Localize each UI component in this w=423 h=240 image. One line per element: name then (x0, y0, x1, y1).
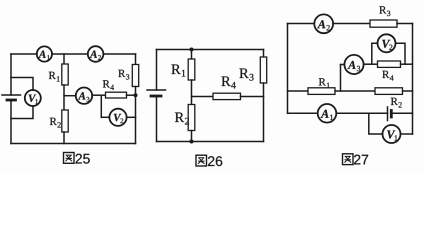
voltmeter V2 c3 (378, 34, 396, 52)
resistor R1 c1 (62, 64, 68, 85)
ammeter A1 c3 (318, 104, 337, 123)
caption hanzi TU 25 (64, 153, 75, 164)
wire: c1 left frame lower (10, 100, 12, 144)
wire: branch to R1 c2 (191, 50, 193, 60)
wire: c1 top rail mid (52, 53, 87, 55)
caption hanzi TU 27 (343, 154, 354, 165)
wire: R4 to right frame c2 (241, 96, 264, 98)
label A1 meter c3 (320, 110, 328, 118)
wire: A3 to R4 (92, 94, 105, 96)
label R3 c3 (379, 6, 386, 13)
resistor R3 c2 (260, 57, 266, 83)
caption 26 (208, 156, 222, 166)
ammeter A3 (76, 88, 92, 104)
node junction c2 bottom (190, 140, 194, 144)
label R3 c2 (239, 69, 248, 78)
battery cell c3 short plate (390, 111, 393, 118)
resistor R1 c2 (188, 59, 195, 80)
ammeter A2 c3 (314, 14, 333, 33)
wire: branch to A3 (64, 95, 76, 97)
label A2 meter c3 (317, 20, 325, 28)
wire: c1 bottom rail (11, 143, 136, 145)
wire: V1 bracket top (11, 78, 33, 91)
wire: V2 to right frame (127, 116, 136, 118)
wire: c2 right frame upper (263, 50, 265, 58)
wire: c2 top rail (157, 49, 264, 51)
wire: A3 branch riser c3 (340, 65, 342, 92)
resistor R4 c3 (378, 61, 401, 67)
wire: R2 to right frame c3 (403, 90, 413, 92)
wire: to V2 left (101, 116, 109, 118)
wire: V2 right bracket c3 (396, 43, 406, 64)
voltmeter V2 (109, 109, 126, 126)
wire: A1 to battery c3 (336, 112, 387, 114)
voltmeter V1 c3 (383, 125, 401, 143)
label V2 meter c3 (382, 40, 390, 48)
resistor R4 c1 (106, 92, 127, 98)
wire: V1 left bracket c3 (369, 113, 383, 134)
wire: riser to A3 c3 (341, 64, 345, 66)
wire: c1 top rail left (11, 53, 37, 55)
wire: R2 to bottom c2 (191, 131, 193, 142)
wire: V2 left bracket c3 (372, 43, 378, 64)
wire: c3 right frame (412, 24, 414, 135)
wire: V2 drop (100, 95, 102, 117)
wire: c1 top rail right (103, 53, 135, 55)
wire: c2 left frame lower (156, 96, 158, 142)
wire: R1 to R2 (63, 85, 65, 110)
wire: V1 to right frame c3 (401, 133, 413, 135)
label R1 c3 (319, 78, 326, 85)
wire: R1-R2 c2 (191, 80, 193, 105)
wire: c1 left frame upper (10, 54, 12, 95)
label A2 meter c1 (90, 51, 97, 58)
wire: R3 to corner c3 (397, 23, 413, 25)
wire: c1 right frame lower (135, 87, 137, 144)
label R2 c3 (391, 98, 398, 105)
label R2 c1 (50, 118, 57, 125)
wire: A3 to R4 c3 (364, 63, 378, 65)
wire: c1 right frame upper (135, 54, 137, 65)
wire: c3 bottom rail left (288, 112, 318, 114)
resistor R4 c2 (213, 93, 241, 99)
wire: c2 right frame lower (263, 83, 265, 142)
label V1 meter c3 (387, 131, 395, 139)
caption 25 (76, 154, 90, 164)
caption 27 (354, 155, 368, 165)
resistor R3 c1 (132, 65, 138, 87)
wire: branch to R4 c2 (192, 96, 214, 98)
ammeter A3 c3 (344, 55, 363, 74)
wire: R2 to bottom rail (63, 132, 65, 144)
wire: c3 middle rail left (288, 90, 309, 92)
node junction c2 top (190, 48, 194, 52)
wire: R1 to R2 c3 (335, 90, 375, 92)
battery cell c2 long plate (147, 89, 166, 91)
label R1 c2 (171, 65, 180, 74)
battery cell c1 short plate (7, 99, 16, 102)
node junction c1 (134, 93, 138, 97)
label A1 meter c1 (38, 51, 45, 58)
label R4 c1 (103, 80, 110, 87)
label V1 meter c1 (29, 95, 36, 102)
battery cell c2 short plate (151, 95, 161, 98)
label A3 meter c3 (347, 61, 355, 69)
label R3 c1 (118, 70, 125, 77)
resistor R2 c1 (62, 110, 68, 132)
wire: c3 left frame (287, 24, 289, 114)
resistor R3 c3 (370, 20, 397, 27)
wire: top rail to R1 (63, 54, 65, 64)
label R4 c3 (382, 71, 389, 78)
wire: R4 to right frame c3 (401, 63, 413, 65)
wire: A2 to R3 c3 (333, 23, 370, 25)
label A3 meter c1 (78, 92, 85, 99)
ammeter A1 (37, 46, 52, 61)
battery cell c1 long plate (2, 94, 21, 96)
ammeter A2 (88, 46, 104, 62)
wire: c2 bottom rail (157, 141, 264, 143)
label V2 meter c1 (114, 114, 121, 121)
wire: c2 left frame upper (156, 50, 158, 91)
wire: V1 bracket bottom (11, 106, 33, 119)
wire: battery to right frame c3 (391, 112, 412, 114)
label R2 c2 (175, 113, 184, 122)
label R1 c1 (49, 72, 56, 79)
caption hanzi TU 26 (196, 155, 207, 166)
battery cell c3 long plate (387, 107, 389, 121)
label R4 c2 (221, 77, 230, 86)
wire: R4 to right frame (127, 94, 136, 96)
resistor R2 c3 (375, 88, 403, 95)
voltmeter V1 (25, 90, 41, 106)
resistor R1 c3 (308, 88, 335, 95)
resistor R2 c2 (188, 105, 195, 131)
wire: c3 top rail left (288, 23, 315, 25)
